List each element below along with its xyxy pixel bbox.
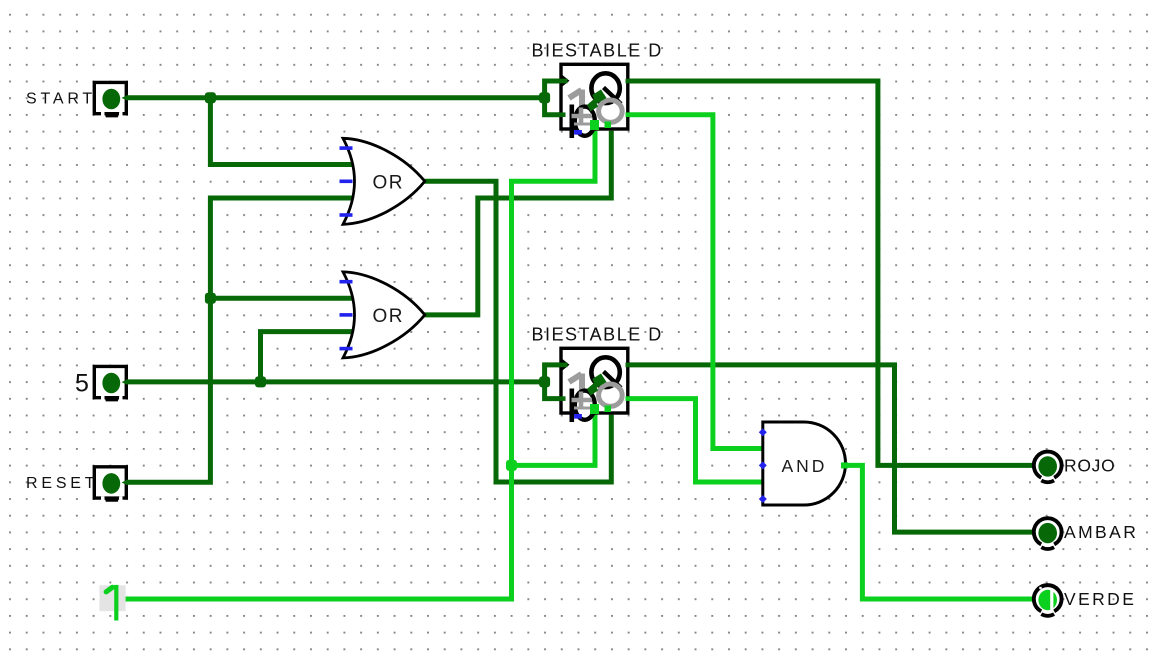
node FF1 input junction <box>539 92 550 103</box>
wire FF1 D branch <box>545 98 562 115</box>
wire FF1 Q to ROJO <box>628 81 1035 465</box>
pin OR1-5 unconnected <box>340 213 353 217</box>
value 1 (gray) U2 <box>569 374 582 404</box>
wire FF2 clock branch <box>545 365 562 382</box>
switch START <box>94 82 126 117</box>
marker bright green bit U1 <box>590 120 599 130</box>
marker green blob U2 <box>592 374 606 389</box>
wire 5 net horizontal <box>126 379 545 384</box>
pin E unconnected (blue) U1 <box>574 130 582 135</box>
flip-flop U2 BIESTABLE D <box>532 325 663 423</box>
svg-text:AMBAR: AMBAR <box>1064 522 1138 542</box>
svg-text:OR: OR <box>373 306 405 327</box>
svg-text:BIESTABLE D: BIESTABLE D <box>532 325 663 345</box>
pin AND-1 unconnected <box>759 428 767 436</box>
svg-text:5: 5 <box>75 370 89 398</box>
constant 1 <box>99 585 125 621</box>
pin label D (U1) <box>572 105 595 139</box>
node START-branch junction <box>205 92 216 103</box>
svg-text:OR: OR <box>373 173 405 194</box>
pin AND-3 unconnected <box>759 461 767 469</box>
wire OR2 output to FF1 bottom pin <box>424 131 611 315</box>
flip-flop U1 BIESTABLE D <box>532 41 663 139</box>
switch RESET <box>94 467 126 502</box>
pin OR1-1 unconnected <box>340 146 353 150</box>
wire FF1 clock branch <box>545 81 562 98</box>
wire constant-1 net <box>126 131 596 599</box>
value 0 (gray) U1 <box>599 100 623 122</box>
wire taper 5 output <box>122 380 127 385</box>
wire FF2 D branch <box>545 382 562 399</box>
led VERDE <box>1034 585 1062 616</box>
pin clock triangle U2 <box>561 358 570 373</box>
svg-text:BIESTABLE D: BIESTABLE D <box>532 41 663 61</box>
svg-text:START: START <box>26 91 96 108</box>
pin E unconnected (blue) U2 <box>574 414 582 419</box>
svg-text:AND: AND <box>782 456 828 476</box>
marker green blob U1 <box>592 90 606 105</box>
wire RESET branch to OR2 pin2 <box>210 296 352 301</box>
node 5-branch junction <box>255 376 266 387</box>
pin label E value (gray cross) U2 <box>572 392 593 410</box>
wire 5 branch to OR2 pin4 <box>261 332 353 382</box>
pin AND-output nub <box>841 462 848 468</box>
node constant-1 junction <box>506 460 517 471</box>
pin nub FF1 Q <box>626 79 631 84</box>
led ROJO <box>1034 452 1062 483</box>
pin OR2-1 unconnected <box>340 280 353 284</box>
wire taper RESET output <box>122 480 127 485</box>
pin OR2-5 unconnected <box>340 347 353 351</box>
pin nub FF2 Qbar <box>626 396 631 401</box>
svg-text:ROJO: ROJO <box>1064 456 1115 476</box>
wire constant-1 branch to FF2 bottom pin <box>512 415 596 466</box>
wire START branch down to OR1 pin2 <box>210 98 352 165</box>
or-gate OR1 <box>340 138 425 224</box>
pin nub FF1 clock <box>558 79 568 84</box>
junction dots dark <box>205 92 550 387</box>
value 0 (gray) U2 <box>599 384 623 406</box>
pin label E value (gray cross) U1 <box>572 108 593 126</box>
pin label D (U2) <box>572 389 595 423</box>
led AMBAR <box>1034 518 1062 549</box>
svg-text:RESET: RESET <box>26 475 98 492</box>
value 1 (gray) U1 <box>569 90 582 120</box>
svg-text:VERDE: VERDE <box>1064 589 1136 609</box>
pin AND-5 unconnected <box>759 495 767 503</box>
wire taper START output <box>122 95 127 100</box>
or-gate OR2 <box>340 272 425 358</box>
wire AND output to VERDE <box>846 465 1035 599</box>
pin nub FF2 clock <box>558 363 568 368</box>
wire START net horizontal <box>126 95 545 100</box>
node RESET-OR2 junction <box>205 293 216 304</box>
pin label Q (U1) <box>591 73 621 104</box>
and-gate U3 <box>759 422 848 505</box>
pin nub FF2 Q <box>626 363 631 368</box>
pin clock triangle U1 <box>561 74 570 89</box>
switch 5 <box>94 366 126 401</box>
pin label Q (U2) <box>591 357 621 388</box>
wire FF2 Q to AMBAR <box>628 365 1035 532</box>
node FF2 input junction <box>539 376 550 387</box>
pin OR2-3 unconnected <box>340 313 353 317</box>
marker bright green bit U2 <box>590 404 599 414</box>
wire FF2 Qbar to AND pin4 <box>628 399 764 482</box>
wire OR1 output to FF2 bottom pin <box>424 181 611 482</box>
pin nub FF2 D <box>558 396 566 401</box>
pin nub FF1 D <box>558 112 566 117</box>
pin OR1-3 unconnected <box>340 180 353 184</box>
wire FF1 Qbar to AND pin2 <box>628 115 764 449</box>
pin nub FF1 Qbar <box>626 112 631 117</box>
wire RESET net <box>126 198 352 482</box>
wire taper constant-1 output <box>121 597 127 602</box>
